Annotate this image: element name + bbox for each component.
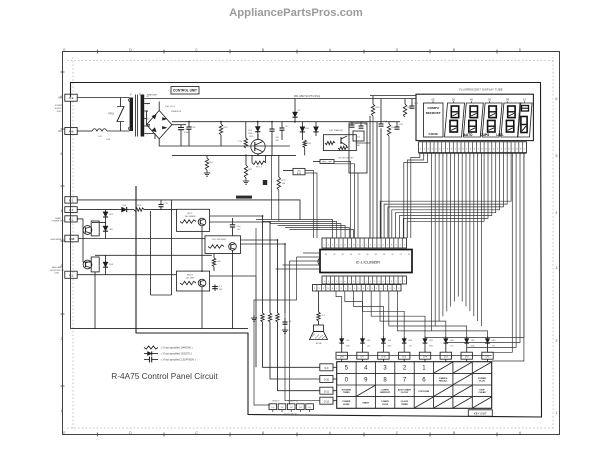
svg-text:8: 8 xyxy=(353,245,355,247)
svg-text:S: S xyxy=(354,288,356,290)
svg-text:C66: C66 xyxy=(237,226,242,228)
wire rail to IC pins bus xyxy=(370,116,389,238)
svg-text:|: | xyxy=(478,155,479,157)
svg-text:C-13: C-13 xyxy=(163,203,168,205)
dark label mark 2 xyxy=(263,180,267,185)
display digit grid 2 xyxy=(463,103,483,137)
diode D58 xyxy=(103,255,114,274)
svg-text:4: 4 xyxy=(556,211,558,215)
svg-text:RY-61: RY-61 xyxy=(187,275,194,277)
svg-text:7: 7 xyxy=(349,281,350,283)
svg-text:GND: GND xyxy=(450,340,455,342)
svg-text:|: | xyxy=(482,155,483,157)
wire A-1 run xyxy=(77,209,118,211)
svg-text:36: 36 xyxy=(342,254,344,256)
svg-text:5: 5 xyxy=(470,149,472,151)
svg-text:R12: R12 xyxy=(282,180,287,182)
svg-text:GND: GND xyxy=(492,340,497,342)
wire RY1 to bus xyxy=(241,240,278,313)
svg-text:DEFROST: DEFROST xyxy=(380,392,391,394)
svg-text:2: 2 xyxy=(458,149,460,151)
svg-text:9: 9 xyxy=(364,377,368,383)
svg-text:GNI GNT SET SET: GNI GNT SET SET xyxy=(338,158,354,160)
display tube box xyxy=(416,94,533,140)
svg-text:25V: 25V xyxy=(237,229,241,231)
svg-text:R9 7.7: R9 7.7 xyxy=(256,167,263,169)
border zone labels xyxy=(61,48,558,437)
resistor RB3 xyxy=(276,313,320,391)
capacitor C21 xyxy=(410,99,419,109)
svg-text:4.7: 4.7 xyxy=(219,286,223,288)
svg-text:R53: R53 xyxy=(224,127,229,129)
svg-text:SP1B: SP1B xyxy=(316,343,322,345)
label FAN LAMP HOOD MOTOR xyxy=(50,266,65,274)
svg-text:|: | xyxy=(513,155,514,157)
svg-text:A-1: A-1 xyxy=(69,208,74,212)
wire bus: left region to IC top xyxy=(256,220,354,277)
svg-text:5: 5 xyxy=(61,152,63,156)
svg-text:|: | xyxy=(501,155,502,157)
svg-text:1: 1 xyxy=(556,411,558,415)
svg-text:COMPU: COMPU xyxy=(427,106,439,110)
svg-text:3: 3 xyxy=(497,149,499,151)
wire A-6 to filter xyxy=(77,130,92,132)
svg-text:99: 99 xyxy=(506,98,509,102)
svg-text:8: 8 xyxy=(516,149,518,151)
svg-text:S: S xyxy=(345,288,347,290)
svg-text:25V: 25V xyxy=(275,140,279,142)
svg-text:START: START xyxy=(362,402,370,405)
svg-text:1SS: 1SS xyxy=(429,340,433,342)
svg-text:TIMER: TIMER xyxy=(401,404,408,406)
capacitor C15 xyxy=(270,122,280,156)
svg-text:COOK: COOK xyxy=(382,404,389,406)
svg-text:5: 5 xyxy=(378,245,380,247)
svg-text:1: 1 xyxy=(324,281,325,283)
svg-text:100: 100 xyxy=(281,407,284,409)
svg-text:S: S xyxy=(336,288,338,290)
svg-text:100: 100 xyxy=(299,407,302,409)
wire RY1b to bus xyxy=(241,244,286,313)
svg-text:2: 2 xyxy=(493,149,495,151)
svg-text:5: 5 xyxy=(556,154,558,158)
buzzer SP1B xyxy=(310,325,328,345)
svg-text:AUTO: AUTO xyxy=(464,133,473,137)
display digit grid 4 xyxy=(501,103,521,137)
wire bridge bottom xyxy=(159,139,290,146)
legend diode symbol xyxy=(144,351,192,355)
svg-text:D-4: D-4 xyxy=(423,355,428,358)
svg-text:4: 4 xyxy=(336,281,337,283)
svg-text:1: 1 xyxy=(455,149,457,151)
svg-text:CN8: CN8 xyxy=(69,237,75,241)
svg-text:4: 4 xyxy=(374,281,375,283)
wire IC left pins xyxy=(276,253,321,269)
sheet inner dashed margin xyxy=(67,57,555,430)
svg-text:3: 3 xyxy=(332,281,333,283)
svg-text:6: 6 xyxy=(345,281,346,283)
svg-text:8: 8 xyxy=(383,377,387,383)
svg-text:1SS270: 1SS270 xyxy=(272,401,280,403)
svg-text:|: | xyxy=(436,155,437,157)
svg-text:FLUORESCENT DISPLAY TUBE: FLUORESCENT DISPLAY TUBE xyxy=(459,88,502,92)
svg-text:S: S xyxy=(372,288,374,290)
wire RY2 to bus xyxy=(210,216,263,313)
sheet border frame xyxy=(63,52,560,435)
svg-text:S: S xyxy=(319,288,321,290)
key matrix diodes row xyxy=(339,336,496,352)
svg-text:9: 9 xyxy=(485,149,487,151)
svg-text:B-56: B-56 xyxy=(297,173,301,175)
svg-text:|: | xyxy=(470,155,471,157)
svg-text:C56: C56 xyxy=(122,205,127,207)
transformer T1 secondary winding xyxy=(141,95,145,137)
svg-text:270: 270 xyxy=(492,346,495,348)
capacitor C5 xyxy=(212,284,223,291)
svg-text:DEFROST: DEFROST xyxy=(426,111,441,115)
connector A-6 xyxy=(65,128,77,135)
svg-text:5: 5 xyxy=(340,245,342,247)
svg-text:8: 8 xyxy=(482,149,484,151)
svg-text:S: S xyxy=(385,288,387,290)
svg-text:65: 65 xyxy=(432,98,435,102)
capacitor C16 xyxy=(280,122,289,140)
svg-text:6: 6 xyxy=(508,149,510,151)
rail to display wire xyxy=(370,95,416,97)
svg-text:VR1 (VR2 SC PT4 Ohm): VR1 (VR2 SC PT4 Ohm) xyxy=(294,95,321,98)
svg-text:TIMER: TIMER xyxy=(343,392,350,394)
svg-text:CLOCK: CLOCK xyxy=(401,392,409,394)
svg-text:C8: C8 xyxy=(289,321,292,323)
svg-text:7: 7 xyxy=(478,149,480,151)
svg-text:S: S xyxy=(358,288,360,290)
resistor RB1 xyxy=(261,313,320,367)
wire Q51 to bus xyxy=(356,142,370,144)
svg-text:5: 5 xyxy=(345,366,349,372)
svg-text:D-5: D-5 xyxy=(402,355,407,358)
transistor Q52 xyxy=(249,134,265,155)
svg-text:RY-1 X61-K689: RY-1 X61-K689 xyxy=(212,239,227,241)
svg-text:7: 7 xyxy=(512,149,514,151)
svg-text:S: S xyxy=(394,288,396,290)
svg-text:|: | xyxy=(520,155,521,157)
dark label mark 1 xyxy=(236,196,252,199)
svg-text:1: 1 xyxy=(420,149,422,151)
svg-text:: ( If not specified 2.5LPF/50: : ( If not specified 2.5LPF/50V ) xyxy=(160,358,196,362)
resistor R56v xyxy=(212,254,220,272)
svg-text:: ( If not specified 1SS270, ): : ( If not specified 1SS270, ) xyxy=(160,352,192,356)
svg-text:GND: GND xyxy=(387,346,392,348)
connector F-2 xyxy=(65,271,77,278)
wire display pin 28 to key matrix xyxy=(492,153,524,361)
photo-transistor PC1 xyxy=(83,221,105,236)
resistor R52 xyxy=(243,155,253,184)
svg-text:5: 5 xyxy=(340,281,341,283)
svg-text:D-12: D-12 xyxy=(324,400,330,403)
transformer T1 labels xyxy=(130,93,157,96)
wire opto lower run xyxy=(95,254,212,256)
display grid number labels xyxy=(432,98,527,103)
svg-text:|: | xyxy=(497,155,498,157)
svg-text:S: S xyxy=(376,288,378,290)
wire bus: IC to keyboard columns xyxy=(336,291,488,336)
transistor Q51 block xyxy=(323,129,356,151)
key matrix grid xyxy=(337,362,492,409)
svg-text:2: 2 xyxy=(366,245,368,247)
control unit label box xyxy=(171,87,199,95)
svg-text:D-2: D-2 xyxy=(465,355,470,358)
svg-text:270: 270 xyxy=(367,346,370,348)
svg-text:1N4002×4: 1N4002×4 xyxy=(171,110,182,113)
svg-text:LEVEL: LEVEL xyxy=(343,404,350,406)
svg-text:5: 5 xyxy=(505,149,507,151)
svg-text:|: | xyxy=(493,155,494,157)
svg-text:POWER: POWER xyxy=(55,105,64,107)
display label CUPS xyxy=(480,133,489,137)
svg-text:6: 6 xyxy=(422,377,426,383)
svg-text:AUTO START: AUTO START xyxy=(398,389,412,392)
junction dots rails xyxy=(188,121,296,157)
svg-text:LBS.: LBS. xyxy=(496,133,503,137)
svg-text:PLUS: PLUS xyxy=(479,381,485,383)
display pin sublabels xyxy=(419,154,527,158)
svg-text:|: | xyxy=(451,155,452,157)
varistor YR61 xyxy=(108,98,124,132)
schematic title xyxy=(111,371,218,381)
svg-text:D-1: D-1 xyxy=(486,355,491,358)
capacitor C20 xyxy=(395,122,404,130)
resistor R53 xyxy=(219,122,228,146)
svg-text:4148: 4148 xyxy=(248,133,253,135)
svg-text:1SS: 1SS xyxy=(346,340,350,342)
svg-text:1: 1 xyxy=(362,281,363,283)
top rail VCC xyxy=(144,98,416,100)
svg-text:S: S xyxy=(367,288,369,290)
svg-text:|: | xyxy=(432,155,433,157)
svg-text:270: 270 xyxy=(409,346,412,348)
svg-text:3: 3 xyxy=(556,266,558,270)
svg-text:1: 1 xyxy=(489,149,491,151)
svg-text:24: 24 xyxy=(391,254,393,256)
IC-1 bottom pin comb xyxy=(322,276,407,284)
svg-text:3: 3 xyxy=(370,245,372,247)
wire bridge top to rail xyxy=(158,102,160,111)
wire E-2 run xyxy=(77,200,300,220)
svg-text:A-2: A-2 xyxy=(69,96,74,100)
svg-text:GND: GND xyxy=(408,340,413,342)
wire bus: regulator area down to IC xyxy=(305,162,355,239)
label NO (A-6) xyxy=(58,130,62,133)
svg-text:SUPPLY: SUPPLY xyxy=(55,108,64,110)
svg-text:RY-2: RY-2 xyxy=(188,213,194,215)
IC-1 signal name strip xyxy=(313,285,402,292)
resistor RB2 xyxy=(268,313,320,379)
svg-text:POPCORN: POPCORN xyxy=(419,391,430,393)
svg-text:28: 28 xyxy=(375,254,377,256)
svg-text:NO: NO xyxy=(58,130,62,133)
resistor R60 xyxy=(403,99,412,118)
svg-text:2: 2 xyxy=(328,245,330,247)
svg-text:AppliancePartsPros.com: AppliancePartsPros.com xyxy=(229,7,363,19)
wire IC to bottom block xyxy=(254,257,297,405)
svg-text:R58: R58 xyxy=(376,107,381,109)
legend resistor symbol xyxy=(144,346,193,350)
svg-text:|: | xyxy=(466,155,467,157)
svg-text:|: | xyxy=(463,155,464,157)
connector A-2 xyxy=(65,94,77,101)
svg-text:F: F xyxy=(130,93,132,96)
key digits xyxy=(345,366,427,384)
wire M1 run xyxy=(77,219,83,226)
svg-text:M1: M1 xyxy=(69,218,73,222)
connector M1 xyxy=(65,216,77,222)
display digit grid 5 (kg/lbs) xyxy=(518,103,533,137)
wire RY2b to bus xyxy=(210,222,270,313)
capacitor C18 xyxy=(359,122,368,129)
svg-text:100: 100 xyxy=(308,407,311,409)
svg-text:IC-1 ICL6985FI: IC-1 ICL6985FI xyxy=(356,261,381,265)
svg-text:D-10: D-10 xyxy=(324,379,330,382)
svg-text:2: 2 xyxy=(404,245,406,247)
svg-text:22: 22 xyxy=(400,254,402,256)
resistor R56h xyxy=(127,205,177,212)
svg-text:A-6: A-6 xyxy=(69,130,74,134)
svg-text:|: | xyxy=(455,155,456,157)
svg-text:15: 15 xyxy=(523,98,526,102)
wire RA-1 to IC xyxy=(357,173,359,238)
svg-text:|: | xyxy=(509,155,510,157)
junction dots mid xyxy=(201,215,286,272)
svg-text:C59: C59 xyxy=(106,139,111,141)
svg-text:9: 9 xyxy=(357,245,359,247)
capacitor C66 xyxy=(230,218,241,236)
svg-text:3: 3 xyxy=(332,245,334,247)
long bottom wire xyxy=(71,272,249,329)
connector CN8 xyxy=(65,235,78,242)
svg-text:8: 8 xyxy=(391,245,393,247)
svg-text:X61-K689M: X61-K689M xyxy=(185,216,196,218)
svg-text:S: S xyxy=(314,288,316,290)
svg-text:S: S xyxy=(398,288,400,290)
svg-text:2: 2 xyxy=(424,149,426,151)
svg-text:|: | xyxy=(524,155,525,157)
svg-text:20: 20 xyxy=(408,254,410,256)
svg-text:8: 8 xyxy=(353,281,354,283)
key matrix row connectors xyxy=(320,364,337,404)
svg-text:R10: R10 xyxy=(307,143,312,145)
display title xyxy=(459,88,502,92)
key matrix column connectors xyxy=(336,352,493,362)
svg-text:D61: D61 xyxy=(109,214,114,216)
label POWER SUPPLY 120V xyxy=(55,105,64,113)
spare parts block xyxy=(269,401,313,416)
relay RY-61 block xyxy=(177,271,210,291)
svg-text:40: 40 xyxy=(325,254,327,256)
svg-text:38: 38 xyxy=(333,254,335,256)
svg-text:F-2: F-2 xyxy=(69,273,74,277)
reset block RA-1 xyxy=(349,123,367,173)
svg-text:3: 3 xyxy=(370,281,371,283)
photo-transistor PC2 xyxy=(83,226,99,272)
svg-text:D-9: D-9 xyxy=(324,367,329,370)
svg-text:4: 4 xyxy=(364,366,368,372)
rail note VR1 xyxy=(294,95,321,98)
display label AUTO xyxy=(464,133,473,137)
svg-text:D60: D60 xyxy=(109,229,114,231)
svg-text:30: 30 xyxy=(366,254,368,256)
svg-text:|: | xyxy=(486,155,487,157)
connector E-2 xyxy=(65,197,77,203)
svg-text:50: 50 xyxy=(452,98,455,102)
svg-text:40: 40 xyxy=(470,98,473,102)
svg-text:Q52: Q52 xyxy=(249,136,254,138)
svg-text:RA1: RA1 xyxy=(356,144,361,147)
svg-text:2: 2 xyxy=(328,281,329,283)
svg-text:RHET05F: RHET05F xyxy=(147,94,157,96)
svg-text:1: 1 xyxy=(400,245,402,247)
svg-text:4: 4 xyxy=(336,245,338,247)
svg-text:D-3: D-3 xyxy=(444,355,449,358)
secondary tap labels xyxy=(146,96,149,136)
key matrix blank slashes xyxy=(357,362,492,408)
resistor R54 xyxy=(238,122,247,148)
svg-text:CUPS: CUPS xyxy=(480,133,489,137)
svg-text:D-8: D-8 xyxy=(381,355,386,358)
label CN8 oven xyxy=(50,239,65,241)
svg-text:9: 9 xyxy=(451,149,453,151)
wire bridge left to secondary xyxy=(147,111,151,125)
svg-text:4: 4 xyxy=(466,149,468,151)
capacitor C52 xyxy=(178,125,190,146)
svg-text:C15: C15 xyxy=(275,137,280,139)
svg-text:9: 9 xyxy=(520,149,522,151)
wire bus: display anode pins down xyxy=(431,153,481,331)
svg-text:4: 4 xyxy=(374,245,376,247)
svg-text:R52: R52 xyxy=(248,169,253,171)
svg-text:D5: D5 xyxy=(298,110,301,112)
svg-text:120V: 120V xyxy=(56,111,62,113)
IC-1 top pin comb xyxy=(322,238,407,248)
svg-text:2: 2 xyxy=(403,366,407,372)
resistor R59 xyxy=(387,122,395,136)
svg-text:3: 3 xyxy=(383,366,387,372)
svg-text:10k: 10k xyxy=(217,261,220,263)
svg-text:1: 1 xyxy=(324,245,326,247)
svg-text:S: S xyxy=(363,288,365,290)
svg-text:GND: GND xyxy=(367,340,372,342)
ground near IC xyxy=(251,315,257,321)
svg-text:D-7: D-7 xyxy=(361,355,366,358)
svg-text:YR61: YR61 xyxy=(108,113,115,116)
svg-text:34: 34 xyxy=(350,254,352,256)
wire bridge right xyxy=(172,124,186,126)
wire RY2 collector down xyxy=(201,231,203,271)
wire RY61 emitter down xyxy=(201,291,203,329)
relay RY-2 block xyxy=(177,209,210,231)
svg-text:*01 *02 *03 *04: *01 *02 *03 *04 xyxy=(284,414,297,416)
bridge labels xyxy=(165,106,182,113)
svg-text:KEY UNIT: KEY UNIT xyxy=(474,411,487,415)
secondary tap wires xyxy=(144,104,155,140)
svg-text:8: 8 xyxy=(447,149,449,151)
svg-text:|: | xyxy=(517,155,518,157)
svg-text:6: 6 xyxy=(556,97,558,101)
svg-text:S: S xyxy=(389,288,391,290)
svg-text:|: | xyxy=(424,155,425,157)
svg-text:GND: GND xyxy=(346,346,351,348)
svg-text:4: 4 xyxy=(61,209,63,213)
svg-text:7: 7 xyxy=(403,377,407,383)
